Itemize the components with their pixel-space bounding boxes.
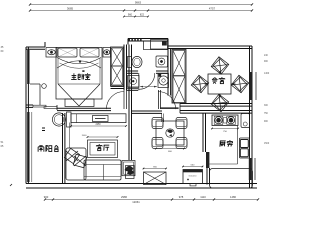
svg-text:1480: 1480 bbox=[230, 195, 236, 199]
svg-text:1110: 1110 bbox=[200, 195, 206, 199]
svg-text:1460: 1460 bbox=[264, 73, 270, 75]
svg-text:978: 978 bbox=[179, 195, 184, 199]
svg-text:822: 822 bbox=[140, 13, 145, 16]
svg-text:4757: 4757 bbox=[209, 6, 216, 10]
svg-text:2250: 2250 bbox=[95, 124, 101, 126]
svg-text:12061: 12061 bbox=[132, 200, 140, 204]
svg-text:900: 900 bbox=[44, 195, 49, 199]
svg-text:1500: 1500 bbox=[82, 135, 88, 137]
svg-text:600x450: 600x450 bbox=[189, 176, 198, 178]
svg-text:9963: 9963 bbox=[135, 1, 142, 5]
svg-text:3685: 3685 bbox=[67, 6, 74, 10]
svg-text:2986: 2986 bbox=[121, 195, 127, 199]
svg-text:960: 960 bbox=[128, 13, 133, 16]
svg-text:1500: 1500 bbox=[264, 143, 270, 145]
